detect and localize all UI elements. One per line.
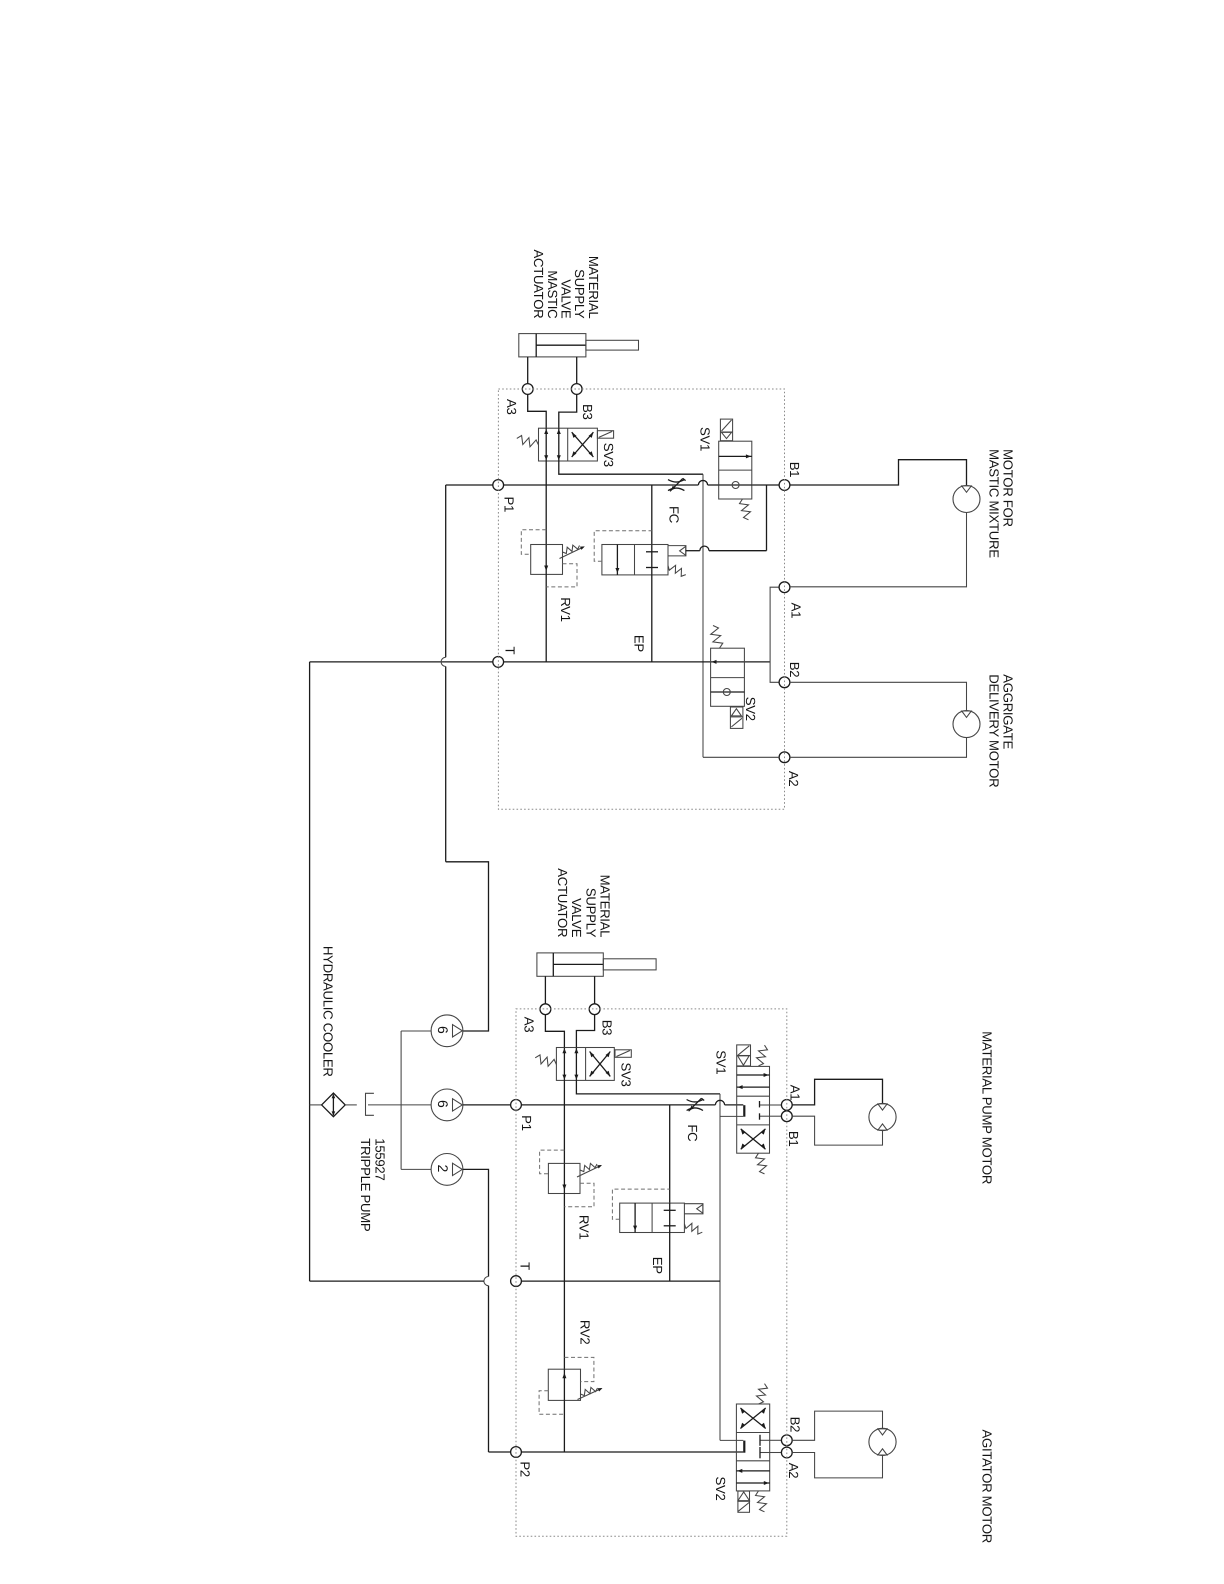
SV1 c2 closed centre [743, 1105, 745, 1117]
port B2 circuit1 [779, 677, 790, 688]
svg-text:2: 2 [435, 1165, 451, 1173]
wire pump2 to P1 circuit2 [463, 1104, 511, 1106]
main line P2 circuit2 [521, 1451, 743, 1453]
svg-text:RV1: RV1 [558, 597, 573, 622]
cooler return line [309, 662, 311, 1281]
svg-text:B3: B3 [580, 404, 595, 420]
svg-text:A2: A2 [786, 1463, 801, 1479]
svg-text:SV2: SV2 [743, 697, 758, 721]
cylinder actuator 2 (material supply valve) [537, 953, 603, 976]
EP c2 outlet to T [669, 1233, 671, 1282]
cylinder 1 port lines [527, 357, 529, 384]
RV1 c2 dashed top [540, 1150, 565, 1174]
tank line T circuit2 [310, 1280, 484, 1282]
svg-text:MATERIAL PUMP MOTOR: MATERIAL PUMP MOTOR [979, 1031, 994, 1184]
valve SV1 circuit2 (4/3 solenoid valve) [737, 1066, 770, 1153]
svg-text:B2: B2 [788, 1417, 803, 1433]
EP pilot actuator flag [668, 546, 686, 556]
wire A2 to agitator motor [792, 1453, 882, 1478]
RV1 c2 dashed bottom [564, 1183, 594, 1207]
EP c2 pilot dashed [612, 1189, 669, 1219]
wire B1 to material pump motor [792, 1116, 882, 1145]
tank line T circuit1 [310, 661, 493, 663]
svg-text:SV2: SV2 [713, 1477, 728, 1501]
valve EP circuit2 (pilot valve) [620, 1203, 685, 1232]
svg-text:155927: 155927 [372, 1138, 387, 1180]
port T circuit2 [511, 1276, 522, 1287]
EP pilot dashed [594, 531, 652, 561]
pump 1 (6cc) [431, 1015, 463, 1047]
wire SV3-A down through RV1 RV2 to P2 [563, 1080, 565, 1163]
SV2 c2 spring bottom [756, 1491, 767, 1512]
svg-text:SUPPLY: SUPPLY [584, 888, 599, 938]
svg-text:P1: P1 [519, 1115, 534, 1131]
svg-text:T: T [518, 1262, 533, 1270]
valve SV3 circuit2 (4/2 solenoid valve) [556, 1048, 614, 1081]
svg-text:B3: B3 [599, 1020, 614, 1036]
main line P1 circuit2 [521, 1104, 715, 1106]
port P1 circuit1 [493, 480, 504, 491]
RV1 c2 spring [580, 1163, 597, 1171]
motor for mastic mixture [953, 486, 980, 513]
svg-text:MOTOR FOR: MOTOR FOR [1001, 449, 1016, 527]
wire B3 to SV3 c2 [576, 1015, 594, 1048]
SV2 c2 closed centre [720, 1439, 743, 1441]
EP valve inlet branch [651, 485, 653, 545]
wire B1 to mastic motor [790, 460, 967, 486]
valve SV2 circuit2 (4/3 solenoid valve) [736, 1404, 769, 1491]
flow control FC circuit1 [668, 480, 684, 482]
svg-text:A1: A1 [789, 603, 804, 619]
svg-text:HYDRAULIC COOLER: HYDRAULIC COOLER [321, 946, 336, 1077]
EP outlet to T [651, 575, 653, 662]
material pump motor [869, 1103, 896, 1130]
svg-text:A3: A3 [521, 1017, 536, 1033]
wire A2 into box [703, 756, 779, 758]
SV3 spring circuit1 [517, 436, 539, 447]
EP pilot line to B1 [686, 550, 700, 552]
svg-text:FC: FC [666, 506, 681, 524]
svg-text:SV3: SV3 [619, 1063, 634, 1087]
port T circuit1 [493, 657, 504, 668]
svg-text:FC: FC [685, 1124, 700, 1142]
main line P1-B1 circuit1 [504, 484, 699, 486]
RV2 spring [581, 1387, 598, 1395]
valve EP circuit1 (pilot valve) [602, 545, 668, 575]
svg-text:6: 6 [435, 1026, 451, 1034]
port P2 circuit2 [511, 1447, 522, 1458]
SV3 spring circuit2 [535, 1055, 556, 1066]
svg-text:B2: B2 [787, 662, 802, 678]
SV2 solenoid circuit1 [730, 707, 743, 728]
svg-text:MASTIC MIXTURE: MASTIC MIXTURE [987, 449, 1002, 558]
RV2 dashed bottom [539, 1391, 564, 1415]
wire P1 feed from pump1 [446, 484, 493, 486]
cylinder 2 port lines [544, 976, 546, 1004]
svg-text:RV2: RV2 [578, 1320, 593, 1345]
tank symbol [366, 1093, 374, 1115]
valve SV2 circuit1 (2/2 solenoid poppet) [711, 648, 745, 706]
svg-text:DELIVERY MOTOR: DELIVERY MOTOR [987, 674, 1002, 787]
svg-text:T: T [503, 647, 518, 655]
wire motor2 return to A2 [790, 738, 967, 758]
wire A3 to SV3 c2 [545, 1015, 564, 1048]
relief valve RV2 circuit2 [548, 1369, 580, 1400]
port B1 circuit1 [779, 480, 790, 491]
EP spring circuit1 [668, 565, 686, 576]
RV1 pilot dashed bottom [546, 564, 577, 587]
svg-text:6: 6 [435, 1100, 451, 1108]
pump suction manifold [400, 1031, 402, 1169]
SV1-B1 branch [720, 1115, 743, 1117]
RV1 spring+adjust [563, 545, 580, 553]
wire B3 to SV3 [559, 394, 577, 428]
svg-text:A1: A1 [788, 1085, 803, 1101]
SV1 c2 solenoid [737, 1045, 751, 1066]
RV1 pilot dashed top [521, 530, 546, 555]
port A3 circuit2 [540, 1004, 551, 1015]
EP c2 spring [684, 1223, 702, 1234]
SV1 c2 spring top [757, 1045, 768, 1066]
svg-text:EP: EP [632, 635, 647, 652]
hop P1 line over riser c2 [715, 1100, 724, 1105]
svg-text:SV1: SV1 [714, 1050, 729, 1074]
svg-text:B1: B1 [786, 1131, 801, 1147]
RV2 dashed top [564, 1357, 594, 1381]
wire A3 to SV3 [528, 394, 547, 428]
EP inlet branch c2 [669, 1105, 671, 1203]
svg-text:P2: P2 [518, 1461, 533, 1477]
hop feed over T line [441, 657, 446, 666]
SV3 solenoid circuit1 [597, 431, 613, 439]
wire motor1 return to A1 [790, 513, 967, 587]
port B3 circuit2 [589, 1004, 600, 1015]
port A3 circuit1 [522, 384, 533, 395]
valve SV3 circuit1 (4/2 solenoid valve) [539, 428, 598, 461]
svg-text:A2: A2 [786, 771, 801, 787]
SV2 spring circuit1 [711, 626, 723, 649]
svg-text:ACTUATOR: ACTUATOR [555, 868, 570, 937]
svg-text:RV1: RV1 [576, 1215, 591, 1240]
agitator motor [869, 1428, 896, 1455]
EP c2 pilot flag [684, 1204, 703, 1214]
flow control FC circuit2 [687, 1100, 703, 1102]
port P1 circuit2 [511, 1100, 522, 1111]
dashed manifold box circuit2 [516, 1009, 787, 1536]
wire SV3-B to SV valves riser c2 [576, 1080, 720, 1094]
ports A1 B1 circuit2 [770, 1104, 782, 1106]
pump 2 (6cc) [431, 1089, 463, 1121]
wire pump3 to P2 circuit2 [463, 1169, 488, 1276]
svg-text:B1: B1 [787, 462, 802, 478]
relief valve RV1 circuit1 [531, 545, 563, 575]
A1-B2 connector circuit1 [770, 587, 779, 682]
cylinder actuator 1 (mastic valve actuator) [519, 334, 586, 357]
svg-text:EP: EP [650, 1257, 665, 1274]
SV2 c2 spring top [757, 1384, 768, 1404]
pump 3 (2cc) [431, 1154, 463, 1186]
port A2 circuit1 [779, 752, 790, 763]
port B3 circuit1 [571, 384, 582, 395]
wire SV3-B to A2 riser [559, 461, 703, 474]
valve SV1 circuit1 (2/2 solenoid poppet) [719, 441, 752, 499]
hop B1 line over riser [698, 480, 707, 485]
SV1 c2 spring bottom [756, 1153, 767, 1174]
wire SV3-A down to RV1 [545, 461, 547, 545]
svg-text:VALVE: VALVE [569, 898, 584, 938]
svg-text:AGITATOR MOTOR: AGITATOR MOTOR [979, 1430, 994, 1544]
SV1 spring circuit1 [740, 499, 751, 520]
relief valve RV1 circuit2 [548, 1163, 580, 1193]
wire A1 to material pump motor [792, 1079, 882, 1105]
SV3 solenoid circuit2 [615, 1050, 631, 1058]
SV2 c2 solenoid [738, 1491, 750, 1512]
ports B2 A2 circuit2 [770, 1439, 782, 1441]
wire B2 to aggrigate motor [790, 682, 967, 710]
svg-text:MATERIAL: MATERIAL [598, 875, 613, 938]
dashed manifold box circuit1 [498, 389, 784, 809]
svg-text:A3: A3 [504, 399, 519, 415]
SV1 solenoid circuit1 [720, 419, 732, 441]
svg-text:P1: P1 [502, 497, 517, 513]
suction from tank [368, 1104, 431, 1106]
svg-text:SV3: SV3 [601, 443, 616, 467]
svg-text:SV1: SV1 [697, 427, 712, 451]
wire B2 to agitator motor [792, 1411, 882, 1440]
svg-text:AGGRIGATE: AGGRIGATE [1001, 674, 1016, 749]
hydraulic cooler diamond [322, 1093, 346, 1117]
aggrigate delivery motor [953, 711, 980, 738]
svg-text:ACTUATOR: ACTUATOR [531, 249, 546, 318]
svg-text:TRIPPLE PUMP: TRIPPLE PUMP [358, 1138, 373, 1232]
port A1 circuit1 [779, 582, 790, 593]
